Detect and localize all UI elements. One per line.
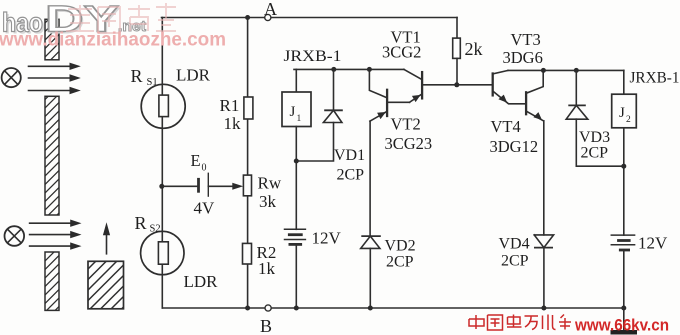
junction VT4 collector xyxy=(541,68,546,73)
junction 2k / base line xyxy=(454,82,459,87)
svg-text:VT3: VT3 xyxy=(511,30,541,49)
junction rail / R2 xyxy=(245,306,250,311)
svg-text:J: J xyxy=(290,104,296,120)
diode VD1 2CP (flyback across J1) xyxy=(296,69,365,183)
relay J2 JRXB-1 xyxy=(612,70,680,236)
svg-text:12V: 12V xyxy=(312,229,342,248)
svg-text:1k: 1k xyxy=(258,259,276,278)
svg-text:1: 1 xyxy=(297,114,302,124)
wire middle bridge column xyxy=(247,18,249,309)
svg-text:S1: S1 xyxy=(147,77,158,88)
transistor VT2 3CG23 (PNP) xyxy=(369,69,432,236)
svg-text:3DG6: 3DG6 xyxy=(503,48,543,67)
junction E0 branch xyxy=(159,184,164,189)
watermark ghost characters xyxy=(66,3,176,33)
resistor R1 1k xyxy=(220,96,253,133)
svg-text:J: J xyxy=(619,105,625,121)
svg-text:12V: 12V xyxy=(638,234,668,253)
resistor 2k xyxy=(453,18,483,85)
svg-text:VD1: VD1 xyxy=(334,147,365,164)
watermark China electronics maker xyxy=(469,315,571,331)
svg-text:Rw: Rw xyxy=(258,174,282,193)
lamp (light source) upper xyxy=(2,68,21,87)
junction J2/VD3 bottom xyxy=(621,164,626,169)
junction rail / battery left xyxy=(294,306,299,311)
terminal bar bottom right xyxy=(611,308,638,335)
watermark haoDY.net logo xyxy=(2,0,146,42)
lamp (light source) lower xyxy=(5,226,25,246)
junction VD1 top xyxy=(331,67,336,72)
svg-text:VD4: VD4 xyxy=(499,236,530,253)
svg-text:R1: R1 xyxy=(220,96,240,115)
watermark www.dianziaihaozhe.com xyxy=(0,30,226,51)
svg-text:3DG12: 3DG12 xyxy=(490,137,539,156)
node B xyxy=(260,305,272,335)
svg-text:www.66kv.cn: www.66kv.cn xyxy=(574,317,669,335)
svg-text:3k: 3k xyxy=(259,192,277,211)
svg-text:R: R xyxy=(131,66,143,86)
svg-text:www.dianziaihaozhe.com: www.dianziaihaozhe.com xyxy=(0,30,226,51)
junction J1/VD1 bottom xyxy=(294,159,299,164)
wire top rail A xyxy=(162,17,458,19)
battery 12V right xyxy=(611,234,668,309)
object motion up arrow xyxy=(103,222,110,254)
wire left bridge column xyxy=(161,18,163,309)
svg-text:VT2: VT2 xyxy=(391,115,421,134)
diode VD2 2CP xyxy=(361,236,416,308)
wire J1 collector line xyxy=(294,68,404,70)
photoresistor RS2 (LDR) xyxy=(135,213,219,291)
battery E0 4V xyxy=(162,151,215,218)
potentiometer Rw 3k xyxy=(243,174,281,212)
svg-text:2CP: 2CP xyxy=(337,167,365,184)
diode VD4 2CP xyxy=(499,235,554,308)
relay J1 JRXB-1 xyxy=(282,48,342,229)
svg-text:4V: 4V xyxy=(194,199,216,218)
junction rail / right column xyxy=(621,306,626,311)
svg-text:2k: 2k xyxy=(465,39,483,59)
svg-text:B: B xyxy=(260,316,272,335)
wall (hatched screen) upper segment xyxy=(45,19,59,60)
svg-text:JRXB-1: JRXB-1 xyxy=(630,70,680,87)
svg-text:1k: 1k xyxy=(224,114,242,133)
svg-text:VT4: VT4 xyxy=(491,117,521,136)
photoresistor RS1 (LDR) xyxy=(131,66,211,129)
svg-text:R: R xyxy=(135,213,147,233)
node A xyxy=(264,0,277,21)
diode VD3 2CP (flyback across J2) xyxy=(566,70,624,166)
svg-text:2CP: 2CP xyxy=(581,145,609,162)
wire J2 collector line xyxy=(508,69,624,71)
svg-text:VD2: VD2 xyxy=(385,238,416,255)
svg-text:2CP: 2CP xyxy=(386,254,414,271)
junction VT2 collector branch xyxy=(367,67,372,72)
wall lower segment xyxy=(45,252,59,310)
svg-text:VD3: VD3 xyxy=(579,129,610,146)
battery 12V left xyxy=(285,229,342,309)
wiper arrow into Rw xyxy=(208,183,243,190)
svg-text:LDR: LDR xyxy=(176,66,211,85)
svg-text:JRXB-1: JRXB-1 xyxy=(284,48,342,65)
svg-text:LDR: LDR xyxy=(184,272,219,291)
detected object (hatched box) xyxy=(88,261,124,309)
wire common base line xyxy=(422,84,493,86)
wall middle segment xyxy=(45,96,59,215)
junction VD3 top xyxy=(574,68,579,73)
svg-text:3CG23: 3CG23 xyxy=(385,134,433,153)
svg-text:2CP: 2CP xyxy=(501,253,529,270)
light beam arrows lower xyxy=(30,220,82,250)
wire bottom rail B xyxy=(162,307,624,309)
svg-text:2: 2 xyxy=(626,115,631,125)
transistor VT4 3DG12 (NPN) xyxy=(490,70,544,235)
svg-text:0: 0 xyxy=(202,163,207,174)
svg-text:A: A xyxy=(264,0,277,19)
junction rail / VD4 xyxy=(541,306,546,311)
junction top rail / R1 column xyxy=(245,15,250,20)
transistor VT3 3DG6 (NPN) xyxy=(493,30,543,104)
light beam arrows upper xyxy=(29,63,81,95)
transistor VT1 3CG2 (PNP) xyxy=(382,28,422,103)
junction rail / VD2 xyxy=(368,306,373,311)
svg-text:S2: S2 xyxy=(150,224,161,235)
svg-text:E: E xyxy=(191,151,201,170)
svg-text:3CG2: 3CG2 xyxy=(382,43,421,62)
resistor R2 1k xyxy=(243,243,277,278)
